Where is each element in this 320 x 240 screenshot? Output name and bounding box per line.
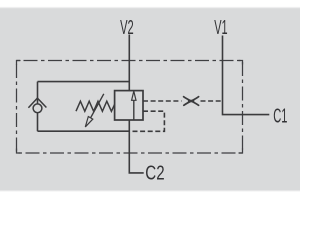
boundary corner ticks [17,61,243,154]
spring adjustment arrow [85,94,104,127]
check valve seat [28,98,46,108]
wire loop top [38,81,130,83]
svg-text:V1: V1 [214,16,227,39]
wire V1 to C1 [223,36,270,115]
svg-text:C2: C2 [145,161,164,184]
check valve ball [33,104,42,113]
flow arrow in valve box [132,91,136,120]
pilot line (dashed) to orifice [143,100,182,102]
orifice X [184,97,199,106]
valve envelope boundary (dash-dot) [17,61,243,154]
wire loop left [37,82,39,132]
spring [76,101,115,111]
wire loop bottom [38,130,130,132]
valve body box [115,91,143,120]
drain pilot line (dashed) [130,111,165,131]
svg-text:V2: V2 [120,16,134,39]
wire V2 drop line [128,35,130,91]
pilot line (dashed) orifice to V1 [201,100,223,102]
wire valve bottom to C2 [129,120,143,173]
svg-text:C1: C1 [273,104,287,127]
